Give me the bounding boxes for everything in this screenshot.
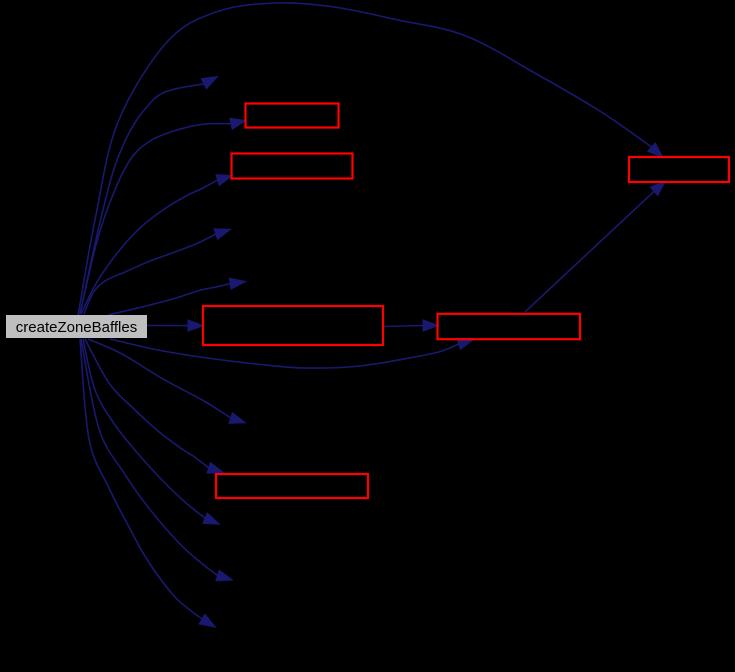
- red box 6: [216, 474, 368, 498]
- edge createZoneBaffles to hidden node 1: [80, 77, 218, 315]
- edge createZoneBaffles to hidden node 2: [84, 229, 231, 314]
- svg-text:createZoneBaffles: createZoneBaffles: [16, 319, 137, 336]
- edge createZoneBaffles to hidden node 4: [88, 339, 245, 423]
- edge red box 4 to red box 5: [525, 181, 666, 312]
- red box 5: [629, 157, 729, 182]
- edge createZoneBaffles to hidden node 7: [80, 339, 215, 627]
- red box 4: [438, 314, 581, 339]
- edge createZoneBaffles to hidden node 6: [81, 339, 232, 581]
- edge createZoneBaffles to red box 3 (horizontal): [146, 320, 204, 331]
- edge createZoneBaffles to hidden node 3: [108, 278, 246, 315]
- red box 2: [232, 154, 353, 179]
- edge red box 3 to red box 4: [384, 320, 439, 331]
- edge createZoneBaffles to red box 1: [80, 118, 246, 314]
- node createZoneBaffles: [6, 315, 147, 338]
- edge createZoneBaffles to red box 2: [81, 175, 233, 314]
- edge createZoneBaffles to red box 6: [85, 339, 224, 473]
- red box 1: [246, 104, 339, 128]
- edge createZoneBaffles to top-right red node (big arc): [78, 3, 663, 316]
- edge createZoneBaffles to red box 4 (dips under box 3): [110, 339, 474, 368]
- red box 3: [203, 306, 383, 345]
- edge createZoneBaffles to hidden node 5: [83, 339, 219, 524]
